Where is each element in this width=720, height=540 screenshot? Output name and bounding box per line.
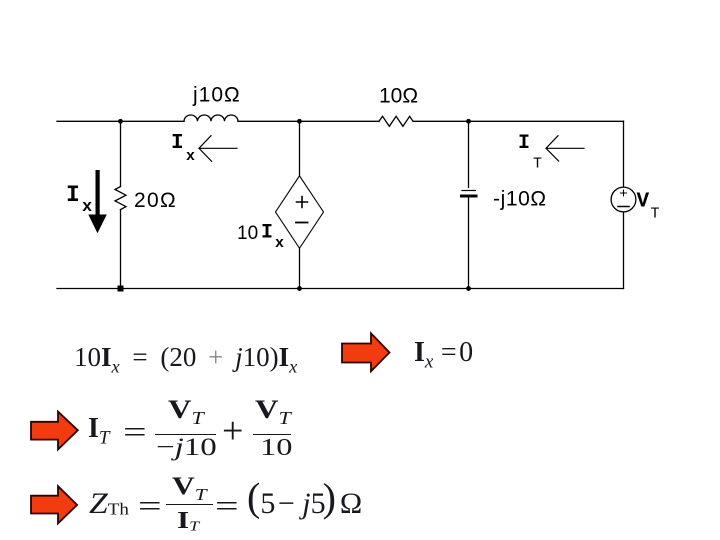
svg-text:20Ω: 20Ω [134,189,177,212]
wire left vertical upper [120,121,122,186]
equation 2 piece: numerator VT [168,397,204,428]
junction node bottom-left [118,286,124,292]
current arrow IT [546,136,584,161]
svg-text:-j10Ω: -j10Ω [493,188,547,211]
equation 1: 10Ix = (20 + j10)Ix [74,342,297,377]
capacitor C1 bottom plate [462,195,477,198]
wire capacitor vertical upper [468,121,470,187]
equation 3 piece: equals 1 [138,490,162,521]
dependent source U1 diamond [276,176,324,249]
svg-text:I: I [261,222,273,245]
resistor R1 20Ω zigzag [115,187,126,210]
wire capacitor vertical lower [468,198,470,289]
source VT plus [621,190,627,196]
equation 2 piece: denominator 2 10 [260,436,292,460]
equation 2 piece: fraction bar 2 [253,434,291,436]
svg-text:T: T [651,206,660,223]
capacitor C1 top plate [462,190,476,192]
svg-text:10: 10 [237,223,258,244]
equation 3 piece: denominator IT [177,509,199,534]
red arrow 2 [31,412,78,450]
svg-text:I: I [66,182,80,208]
dependent source plus [297,197,308,208]
equation 2 piece: denominator -j10 [156,435,217,460]
dependent source minus [296,222,308,224]
wire top-right segment [414,120,624,122]
junction node top-left [118,119,123,124]
source VT minus [618,206,629,208]
red arrow 1 [342,333,390,371]
svg-text:10Ω: 10Ω [379,85,418,108]
wire top-middle segment [238,120,379,122]
red arrow 3 [31,486,77,523]
wire left vertical lower [120,210,122,289]
equation 3 piece: fraction bar [166,504,213,506]
equation 3 piece: equals 2 [215,490,239,521]
wire middle vertical lower [299,248,301,288]
equation 2 piece: IT [88,415,110,448]
svg-text:I: I [171,132,184,155]
svg-text:V: V [637,191,650,214]
current arrow Ix bold head [88,215,107,234]
svg-text:T: T [533,156,542,173]
current arrow Ix bold (left branch) shaft [96,170,100,215]
junction node bottom-middle [297,286,302,291]
svg-text:x: x [275,235,284,252]
junction node top-capacitor [466,119,471,124]
junction node bottom-capacitor [466,286,471,291]
equation 2 piece: fraction bar 1 [155,434,216,436]
equation 3 piece: (5 - j5) Ohm [247,489,362,519]
equation 2 piece: plus [222,412,243,450]
source VT circle [611,187,636,212]
equation 2 piece: numerator 2 VT [255,397,291,428]
wire middle vertical upper [299,121,301,176]
equation 2 piece: equals [123,416,147,447]
equation 3 piece: numerator VT [172,474,207,503]
current arrow Ix under inductor [199,136,237,162]
equation 3 piece: ZTh [89,489,129,519]
svg-text:x: x [186,148,195,165]
wire bottom [57,288,624,290]
wire right vertical upper [623,121,625,187]
inductor L1 j10Ω [184,115,238,121]
svg-text:x: x [82,198,92,217]
wire top-left segment [57,120,184,122]
equation 1 result: Ix = 0 [414,339,473,372]
junction node top-middle [297,119,302,124]
svg-text:j10Ω: j10Ω [192,84,241,107]
wire right vertical lower [623,212,625,289]
svg-text:I: I [518,132,530,155]
resistor R2 10Ω [379,116,413,126]
